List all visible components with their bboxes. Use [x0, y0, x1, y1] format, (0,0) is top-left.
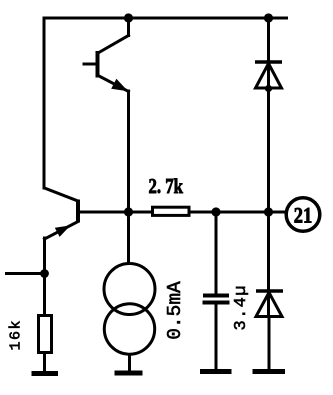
svg-text:3.4µ: 3.4µ [232, 286, 251, 331]
wire left vertical (collector of Q1 to top rail) [43, 18, 46, 188]
capacitor C1 [203, 296, 230, 303]
label 2.7k [149, 174, 184, 198]
wire input stub [7, 272, 45, 275]
current source I1 [104, 212, 155, 371]
label 3.4u [232, 286, 251, 331]
wire Q1 emitter vertical [43, 238, 46, 314]
diode D2 [256, 291, 283, 317]
node top-center junction [124, 13, 133, 22]
node junction at capacitor branch [211, 207, 220, 216]
wire capacitor branch top [215, 212, 218, 294]
wire right rail middle [267, 88, 270, 317]
wire capacitor to ground [215, 304, 218, 371]
wire base rail (Q1 base to node 21) [78, 211, 287, 214]
resistor R1 16k [39, 316, 52, 353]
wire top rail [46, 17, 287, 20]
terminal 21 [286, 198, 320, 232]
wire right rail upper [267, 18, 270, 88]
wire to terminal 21 [269, 211, 287, 214]
ground (C1) [200, 369, 232, 374]
node D1 anode junction [265, 85, 272, 92]
transistor Q2 (NPN, top) [84, 18, 129, 92]
diode D1 [255, 62, 282, 88]
svg-text:2. 7k: 2. 7k [149, 174, 184, 198]
node junction at right rail [264, 207, 273, 216]
node top-right junction [264, 13, 273, 22]
svg-text:16k: 16k [8, 321, 25, 351]
transistor Q1 (PNP, left) [45, 188, 79, 239]
resistor R2 2.7k [153, 207, 190, 215]
wire Q2 emitter vertical [127, 91, 130, 212]
node junction at Q2 emitter [124, 207, 133, 216]
ground (R1) [32, 371, 59, 376]
wire right rail lower [268, 317, 271, 372]
node input junction [40, 269, 49, 278]
label 16k [8, 321, 25, 351]
label 0.5mA [164, 281, 186, 340]
wire R1 to ground [43, 354, 46, 371]
ground (right rail) [253, 369, 286, 374]
svg-text:0.5mA: 0.5mA [164, 281, 186, 340]
ground (I1) [115, 371, 143, 376]
svg-text:21: 21 [294, 203, 313, 228]
